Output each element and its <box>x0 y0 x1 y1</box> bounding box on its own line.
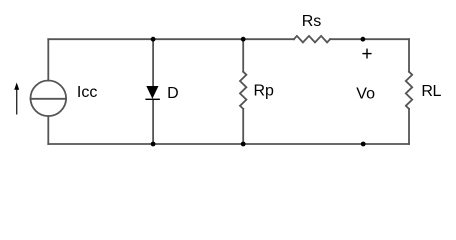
current source I1 circle <box>31 81 67 117</box>
wire diode branch upper <box>152 39 154 86</box>
wire diode branch lower <box>152 99 154 144</box>
wire Rp branch upper <box>242 39 244 71</box>
svg-text:Rs: Rs <box>302 13 322 30</box>
wire bottom rail <box>48 143 409 145</box>
current source I1 bar <box>31 98 67 100</box>
junction dot bottom Rp <box>241 142 246 147</box>
wire top rail right segment <box>330 38 409 40</box>
wire right rail lower <box>408 109 410 144</box>
resistor RL zigzag <box>406 72 412 109</box>
plus sign vertical <box>366 49 368 59</box>
svg-text:D: D <box>167 85 179 102</box>
plus sign horizontal <box>362 53 371 55</box>
junction dot top diode <box>151 37 156 42</box>
wire right rail upper <box>408 39 410 71</box>
diode D triangle <box>146 86 158 99</box>
wire left rail lower <box>47 116 49 144</box>
svg-text:Icc: Icc <box>77 84 97 101</box>
svg-text:Rp: Rp <box>254 82 275 99</box>
current arrow head <box>14 83 19 90</box>
wire left rail upper <box>47 39 49 80</box>
junction dot top Rp <box>241 37 246 42</box>
resistor Rp zigzag <box>240 72 246 109</box>
current arrow line <box>16 89 18 115</box>
junction dot bottom diode <box>151 142 156 147</box>
svg-text:Vo: Vo <box>356 86 375 103</box>
junction dot top Vo+ <box>361 37 366 42</box>
wire top rail left segment <box>48 38 294 40</box>
diode D cathode bar <box>145 98 160 100</box>
junction dot bottom Vo- <box>361 142 366 147</box>
svg-text:RL: RL <box>421 83 441 100</box>
resistor Rs zigzag <box>294 36 330 43</box>
wire Rp branch lower <box>242 109 244 144</box>
